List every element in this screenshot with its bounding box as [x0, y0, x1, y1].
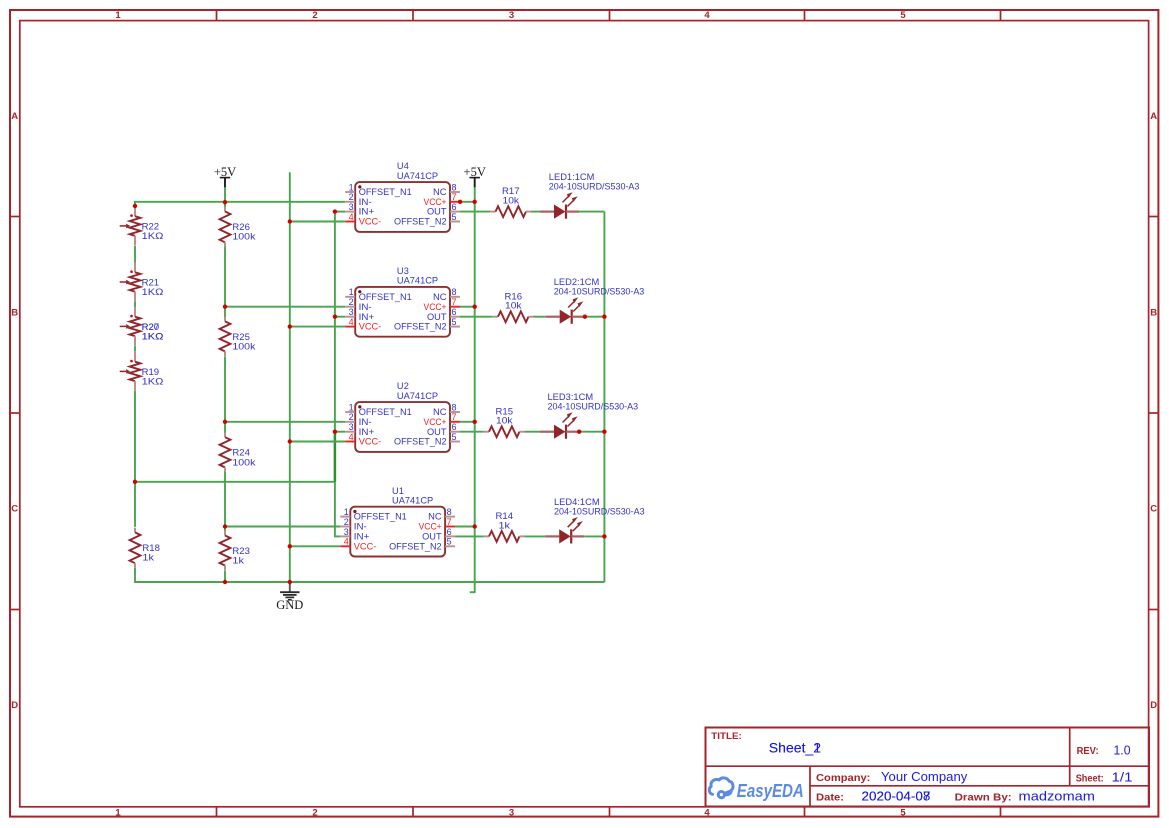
resistor R15	[484, 406, 525, 437]
svg-text:4: 4	[704, 10, 710, 21]
svg-text:A: A	[11, 111, 18, 122]
wire U1 VCC- to GND column	[290, 545, 341, 547]
U4 designator and part labels	[397, 161, 438, 181]
svg-text:8: 8	[452, 402, 457, 412]
svg-text:1KΩ: 1KΩ	[142, 377, 164, 387]
U2 pin 7 VCC+	[424, 412, 461, 427]
resistor R25	[220, 317, 256, 356]
svg-text:A: A	[1150, 111, 1157, 122]
U4 pin 6 OUT	[427, 202, 460, 217]
U3 pin 4 VCC-	[345, 317, 381, 332]
wire GND column	[289, 172, 291, 582]
svg-text:7: 7	[447, 517, 452, 527]
R20/R27 value label	[142, 332, 164, 342]
svg-text:10k: 10k	[505, 301, 522, 311]
svg-text:3: 3	[509, 10, 514, 21]
svg-text:LED1:1CM: LED1:1CM	[549, 172, 595, 182]
wire LED1 row	[460, 211, 604, 213]
junction U3 VCC+ / +5V column	[473, 305, 477, 309]
svg-text:TITLE:: TITLE:	[711, 731, 742, 741]
wire U4 VCC+ to +5V column	[460, 201, 475, 203]
svg-text:1k: 1k	[142, 553, 154, 563]
svg-text:7: 7	[452, 297, 457, 307]
wire U1 IN- from ladder	[225, 526, 340, 528]
svg-text:10k: 10k	[503, 196, 520, 206]
svg-text:4: 4	[349, 212, 354, 222]
U2 pin 3 IN+	[345, 422, 375, 437]
LED LED1	[540, 172, 639, 219]
R23 designator label	[232, 546, 250, 556]
svg-text:100k: 100k	[232, 232, 255, 242]
svg-text:B: B	[11, 308, 18, 319]
U1 pin 4 VCC-	[340, 537, 376, 552]
svg-text:5: 5	[452, 212, 457, 222]
svg-text:Your Company: Your Company	[881, 770, 968, 784]
svg-text:OFFSET_N2: OFFSET_N2	[394, 436, 447, 447]
svg-text:UA741CP: UA741CP	[397, 171, 438, 181]
junction left column / mid rail	[133, 480, 137, 484]
svg-text:204-10SURD/S530-A3: 204-10SURD/S530-A3	[554, 287, 645, 297]
svg-text:1: 1	[349, 402, 354, 412]
R24 designator label	[232, 448, 250, 458]
U1 pin 2 IN-	[340, 517, 367, 532]
resistor R23	[220, 531, 250, 570]
svg-text:U4: U4	[397, 161, 409, 171]
svg-text:8: 8	[452, 182, 457, 192]
junction U3 IN- / ladder	[223, 305, 227, 309]
svg-text:1/1: 1/1	[1112, 770, 1133, 785]
junction LED2 cathode wire	[583, 315, 587, 319]
R19 value label	[142, 377, 164, 387]
svg-text:U3: U3	[397, 266, 409, 276]
LED3 part number label	[548, 402, 639, 412]
U4 pin 5 OFFSET_N2	[394, 212, 460, 227]
U1 pin 3 IN+	[340, 527, 370, 542]
R15 designator label	[496, 406, 514, 416]
R26 designator label	[232, 222, 250, 232]
svg-text:VCC-: VCC-	[359, 321, 382, 332]
junction GND column / bottom rail	[288, 580, 292, 584]
resistor R26	[220, 207, 256, 247]
resistor R18	[130, 528, 160, 568]
LED1 part number label	[549, 182, 640, 192]
svg-text:4: 4	[704, 807, 710, 818]
svg-text:R22: R22	[142, 221, 160, 231]
svg-text:EasyEDA: EasyEDA	[737, 780, 804, 801]
svg-text:Date:: Date:	[816, 793, 844, 804]
U2 pin 6 OUT	[427, 422, 460, 437]
junction U4 VCC+ wire	[458, 200, 462, 204]
U1 pin 5 OFFSET_N2	[389, 537, 455, 552]
U2 pin 1 OFFSET_N1	[345, 402, 412, 417]
LED LED3	[540, 392, 638, 439]
svg-text:OFFSET_N2: OFFSET_N2	[394, 321, 447, 332]
wire LED4 row	[455, 535, 604, 537]
resistor R21	[120, 263, 164, 302]
resistor R17	[490, 186, 531, 217]
svg-text:1KΩ: 1KΩ	[142, 287, 164, 297]
svg-text:R18: R18	[142, 543, 160, 553]
junction R23 bottom / bottom rail	[223, 580, 227, 584]
R25 designator label	[232, 332, 250, 342]
junction U4 VCC+ / +5V column	[473, 200, 477, 204]
svg-text:5: 5	[900, 10, 906, 21]
svg-text:1: 1	[349, 182, 354, 192]
U1 pin 6 OUT	[422, 527, 455, 542]
svg-text:R26: R26	[232, 222, 250, 232]
svg-text:D: D	[11, 700, 18, 711]
junction U3 IN+ / IN+ column	[333, 315, 337, 319]
wire +5V left stem	[224, 187, 226, 202]
svg-text:4: 4	[349, 317, 354, 327]
svg-text:100k: 100k	[232, 457, 255, 467]
svg-text:Company:: Company:	[816, 773, 870, 784]
junction +5V rail / R26 top	[223, 200, 227, 204]
svg-text:D: D	[1150, 700, 1157, 711]
R22 value label	[142, 231, 164, 241]
svg-text:204-10SURD/S530-A3: 204-10SURD/S530-A3	[554, 506, 645, 516]
junction LED3 cathode wire	[577, 430, 581, 434]
U1 pin 8 NC	[428, 507, 455, 522]
U4 pin 8 NC	[433, 182, 460, 197]
svg-text:204-10SURD/S530-A3: 204-10SURD/S530-A3	[549, 182, 640, 192]
R21 designator label	[142, 278, 160, 288]
junction U1 VCC+ / +5V column	[473, 524, 477, 528]
svg-text:6: 6	[452, 202, 457, 212]
svg-text:3: 3	[349, 307, 354, 317]
svg-text:6: 6	[452, 307, 457, 317]
wire U3 IN+ tap	[335, 316, 345, 318]
resistor R22	[120, 206, 164, 245]
op-amp U1 UA741CP	[340, 486, 455, 557]
R19 designator label	[142, 367, 160, 377]
U4 pin 2 IN-	[345, 192, 372, 207]
svg-text:C: C	[1150, 504, 1157, 515]
resistor R16	[493, 291, 534, 322]
svg-text:R21: R21	[142, 278, 160, 288]
junction U4 VCC- / GND column	[288, 219, 292, 223]
svg-text:madzomam: madzomam	[1019, 790, 1096, 804]
wire U2 VCC- to GND column	[290, 441, 345, 443]
svg-text:8: 8	[452, 287, 457, 297]
U3 designator and part labels	[397, 266, 438, 286]
U2 pin 5 OFFSET_N2	[394, 432, 460, 447]
junction U3 VCC- / GND column	[288, 324, 292, 328]
R15 value label	[496, 416, 513, 426]
LED2 designator label	[554, 277, 600, 287]
svg-text:2: 2	[312, 807, 317, 818]
svg-text:OFFSET_N2: OFFSET_N2	[394, 216, 447, 227]
svg-text:Sheet_2: Sheet_2	[769, 740, 821, 755]
U3 pin 6 OUT	[427, 307, 460, 322]
U2 pin 2 IN-	[345, 412, 372, 427]
junction LED2 / output rail	[602, 315, 606, 319]
svg-text:R24: R24	[232, 448, 250, 458]
wire U3 VCC- to GND column	[290, 326, 345, 328]
svg-text:1: 1	[115, 10, 121, 21]
R21 value label	[142, 287, 164, 297]
U2 pin 8 NC	[433, 402, 460, 417]
svg-text:3: 3	[349, 422, 354, 432]
svg-text:R27: R27	[142, 322, 160, 332]
LED1 designator label	[549, 172, 595, 182]
svg-text:1.0: 1.0	[1114, 742, 1131, 757]
wire U1 VCC+ to +5V column	[455, 526, 475, 528]
svg-text:5: 5	[452, 432, 457, 442]
svg-text:3: 3	[349, 202, 354, 212]
svg-text:LED2:1CM: LED2:1CM	[554, 277, 600, 287]
svg-text:1k: 1k	[232, 556, 244, 566]
svg-text:UA741CP: UA741CP	[392, 496, 433, 506]
U3 pin 7 VCC+	[424, 297, 461, 312]
wire LED2 row	[460, 316, 604, 318]
wire U4 VCC- to GND column	[290, 221, 345, 223]
junction U2 VCC- / GND column	[288, 439, 292, 443]
U2 designator and part labels	[397, 381, 438, 401]
svg-text:3: 3	[344, 527, 349, 537]
svg-text:4: 4	[349, 432, 354, 442]
R24 value label	[232, 457, 255, 467]
power +5V	[214, 165, 236, 187]
junction LED4 / output rail	[602, 534, 606, 538]
svg-text:B: B	[1150, 308, 1157, 319]
svg-text:204-10SURD/S530-A3: 204-10SURD/S530-A3	[548, 402, 639, 412]
wire U4 IN+ tap	[335, 211, 345, 213]
op-amp U3 UA741CP	[345, 266, 460, 337]
svg-text:VCC-: VCC-	[359, 216, 382, 227]
U3 pin 1 OFFSET_N1	[345, 287, 412, 302]
svg-text:2: 2	[344, 517, 349, 527]
R23 value label	[232, 556, 244, 566]
U3 pin 8 NC	[433, 287, 460, 302]
LED4 designator label	[554, 497, 600, 507]
junction U2 IN- / ladder	[223, 420, 227, 424]
svg-text:5: 5	[447, 537, 452, 547]
ground GND	[276, 582, 303, 612]
resistor R14	[484, 511, 525, 542]
U4 pin 7 VCC+	[424, 192, 461, 207]
U3 pin 5 OFFSET_N2	[394, 317, 460, 332]
svg-text:U1: U1	[392, 486, 404, 496]
svg-text:LED4:1CM: LED4:1CM	[554, 497, 600, 507]
svg-text:1KΩ: 1KΩ	[142, 231, 164, 241]
wire U2 IN- from ladder	[225, 421, 345, 423]
svg-text:5: 5	[900, 807, 906, 818]
svg-text:Drawn By:: Drawn By:	[955, 793, 1012, 804]
svg-text:6: 6	[452, 422, 457, 432]
R18 value label	[142, 553, 154, 563]
R18 designator label	[142, 543, 160, 553]
R17 value label	[503, 196, 520, 206]
svg-text:R23: R23	[232, 546, 250, 556]
svg-text:7: 7	[452, 412, 457, 422]
junction U4 IN+ / IN+ column	[333, 209, 337, 213]
U4 pin 1 OFFSET_N1	[345, 182, 412, 197]
svg-text:2: 2	[349, 412, 354, 422]
junction LED3 / output rail	[602, 430, 606, 434]
R16 designator label	[505, 291, 523, 301]
wire U3 VCC+ to +5V column	[460, 306, 475, 308]
LED LED2	[546, 277, 645, 324]
svg-text:1: 1	[115, 807, 121, 818]
svg-text:GND: GND	[276, 598, 303, 612]
R14 designator label	[496, 511, 514, 521]
svg-text:Sheet:: Sheet:	[1076, 774, 1104, 785]
LED3 designator label	[548, 392, 594, 402]
wire +5V right column	[470, 187, 476, 592]
svg-text:2: 2	[349, 192, 354, 202]
wire IN+ column	[334, 212, 340, 537]
svg-text:UA741CP: UA741CP	[397, 276, 438, 286]
U4 pin 3 IN+	[345, 202, 375, 217]
junction left column / +5V rail	[133, 204, 137, 208]
junction U1 VCC- / GND column	[288, 544, 292, 548]
wire U3 IN- from ladder	[225, 306, 345, 308]
svg-text:2020-04-08: 2020-04-08	[862, 790, 931, 804]
wire +5V top rail to U4 IN-	[135, 201, 345, 203]
svg-text:7: 7	[452, 192, 457, 202]
wire mid horizontal rail	[134, 481, 335, 483]
svg-text:1: 1	[344, 507, 349, 517]
junction U2 IN+ / IN+ column	[333, 430, 337, 434]
U1 pin 7 VCC+	[419, 517, 456, 532]
R26 value label	[232, 232, 255, 242]
wire LED3 row	[460, 431, 604, 433]
LED4 part number label	[554, 506, 645, 516]
svg-text:2: 2	[312, 10, 317, 21]
U1 designator and part labels	[392, 486, 433, 506]
R17 designator label	[502, 186, 520, 196]
svg-text:1KΩ: 1KΩ	[142, 332, 164, 342]
svg-text:4: 4	[344, 537, 349, 547]
wire U2 VCC+ to +5V column	[460, 421, 475, 423]
power +5V	[464, 165, 486, 187]
junction U2 VCC+ / +5V column	[473, 420, 477, 424]
svg-text:OFFSET_N2: OFFSET_N2	[389, 540, 442, 551]
svg-text:VCC-: VCC-	[354, 540, 377, 551]
svg-text:5: 5	[452, 317, 457, 327]
svg-text:VCC-: VCC-	[359, 436, 382, 447]
U3 pin 3 IN+	[345, 307, 375, 322]
R14 value label	[499, 520, 511, 530]
svg-text:C: C	[11, 504, 18, 515]
wire bottom GND rail	[134, 581, 604, 583]
U4 pin 4 VCC-	[345, 212, 381, 227]
op-amp U2 UA741CP	[345, 381, 460, 452]
svg-text:6: 6	[447, 527, 452, 537]
svg-text:1: 1	[349, 287, 354, 297]
svg-text:1k: 1k	[499, 520, 511, 530]
svg-text:U2: U2	[397, 381, 409, 391]
svg-text:R25: R25	[232, 332, 250, 342]
wire U2 IN+ tap	[335, 431, 345, 433]
wire left resistor column	[134, 201, 136, 583]
svg-text:100k: 100k	[232, 342, 255, 352]
svg-text:3: 3	[509, 807, 514, 818]
svg-text:UA741CP: UA741CP	[397, 391, 438, 401]
wire middle ladder column	[224, 202, 226, 582]
resistor ['R20', 'R27']	[120, 307, 164, 346]
U1 pin 1 OFFSET_N1	[340, 507, 407, 522]
resistor R19	[120, 352, 164, 391]
svg-text:10k: 10k	[496, 416, 513, 426]
svg-text:LED3:1CM: LED3:1CM	[548, 392, 594, 402]
LED LED4	[545, 497, 644, 544]
svg-text:8: 8	[447, 507, 452, 517]
resistor R24	[220, 433, 256, 473]
LED2 part number label	[554, 287, 645, 297]
R20/R27 designator label	[142, 322, 160, 332]
R25 value label	[232, 342, 255, 352]
wire LED output rail	[603, 212, 605, 582]
junction U1 IN- / ladder	[223, 524, 227, 528]
U3 pin 2 IN-	[345, 297, 372, 312]
svg-text:R19: R19	[142, 367, 160, 377]
U2 pin 4 VCC-	[345, 432, 381, 447]
op-amp U4 UA741CP	[345, 161, 460, 232]
R22 designator label	[142, 221, 160, 231]
svg-text:2: 2	[349, 297, 354, 307]
R16 value label	[505, 301, 522, 311]
svg-text:REV:: REV:	[1077, 746, 1099, 757]
